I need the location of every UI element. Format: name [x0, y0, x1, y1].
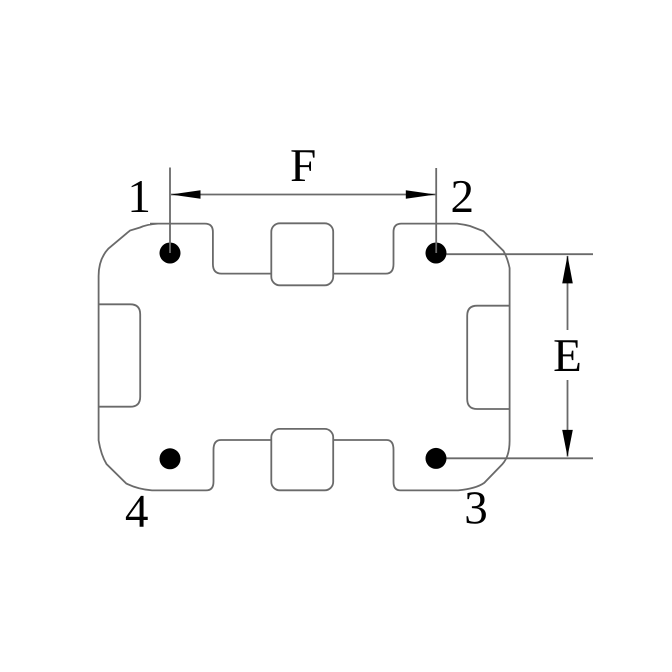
dimension line E lower segment	[567, 380, 569, 457]
label pin 4	[126, 496, 148, 527]
label dimension E	[554, 340, 579, 371]
bottom center tab	[271, 429, 333, 490]
package body outline	[99, 224, 510, 491]
left side notch	[99, 304, 141, 406]
label pin 2	[453, 181, 472, 212]
extension line pin 2 horizontal	[447, 253, 594, 255]
top center tab	[271, 223, 333, 285]
label pin 3	[466, 492, 485, 524]
pad dot pin 2	[426, 243, 447, 264]
extension line pin 2 vertical	[435, 168, 437, 253]
arrowhead F right	[406, 190, 436, 199]
extension line pin 3 horizontal	[447, 457, 594, 459]
dimension line E upper segment	[567, 256, 569, 330]
arrowhead F left	[171, 190, 201, 199]
label pin 1	[132, 181, 149, 212]
pad dot pin 4	[160, 448, 181, 469]
arrowhead E up	[562, 255, 573, 283]
pad dot pin 3	[426, 448, 447, 469]
pad dot pin 1	[160, 243, 181, 264]
label dimension F	[291, 150, 314, 181]
right side notch	[467, 306, 509, 409]
dimension line F	[171, 194, 436, 196]
arrowhead E down	[562, 430, 573, 457]
extension line pin 1 vertical	[169, 168, 171, 254]
